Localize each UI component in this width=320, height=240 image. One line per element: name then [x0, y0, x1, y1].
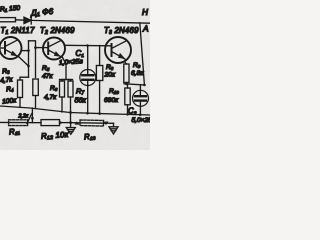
capacitor C2	[133, 85, 149, 115]
node dot right rail bottom	[143, 84, 146, 87]
wire link rails	[31, 108, 33, 123]
wire R3 R4 top bar	[20, 77, 29, 80]
transistor T3	[105, 37, 131, 63]
ground symbol 2	[109, 123, 118, 134]
node dot ground link	[69, 111, 72, 114]
node dot C1 top	[86, 44, 89, 47]
resistor R12	[41, 120, 71, 126]
resistor R1	[0, 18, 24, 22]
wire T1 collector stub	[21, 50, 28, 52]
resistor R9	[124, 62, 129, 85]
wire coupling horizontal T1-T2	[29, 41, 36, 78]
node dot link	[31, 117, 34, 120]
resistor R4	[33, 79, 39, 109]
transistor T2	[43, 38, 65, 60]
resistor R10	[125, 84, 130, 114]
ground symbol 1	[66, 123, 75, 135]
node dot A1	[27, 49, 30, 52]
node dot rail R10	[126, 113, 129, 116]
node dot rail C2	[139, 114, 142, 117]
wire emitter junction bar	[124, 84, 145, 85]
wire coupling T2-T3	[65, 44, 111, 47]
paper noise	[0, 0, 1, 1]
resistor R13 (adjustable, dashed)	[72, 120, 114, 126]
resistor R6	[68, 81, 73, 123]
wire top rail	[32, 20, 150, 23]
capacitor C1	[80, 46, 96, 114]
node dot R9 bottom	[125, 83, 128, 86]
transistor T1	[0, 37, 22, 59]
wire interstage vertical	[28, 41, 30, 77]
node dot A2	[27, 65, 30, 68]
resistor R3	[18, 80, 23, 107]
diode D1	[24, 17, 31, 24]
wire right rail vertical	[140, 23, 145, 85]
wire bottom rail	[0, 106, 150, 115]
resistor R11 (adjustable, dashed)	[9, 120, 28, 126]
resistor R8	[96, 46, 102, 114]
wire T1 emitter diagonal	[19, 57, 29, 66]
wiper arrow R11	[27, 114, 32, 124]
node dot rail R8	[98, 112, 101, 115]
resistor R5	[60, 81, 65, 112]
wire lower rail left	[0, 121, 41, 123]
wire T2 emitter lead	[63, 58, 67, 80]
node dot rail C1	[86, 112, 89, 115]
wire R5 R6 top bar	[62, 80, 71, 82]
